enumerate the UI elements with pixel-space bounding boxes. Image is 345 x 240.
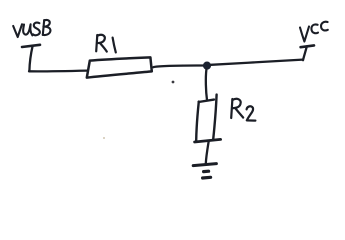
wire R1 to node [153, 66, 203, 68]
wire node to Vcc [211, 60, 303, 65]
net label Vcc [300, 22, 328, 42]
ground [193, 164, 216, 166]
net label VUSB [13, 20, 50, 37]
label R1 [96, 35, 116, 53]
pen dot speckle [172, 81, 175, 84]
wire R2 to ground [206, 142, 209, 164]
label R2 [231, 99, 255, 121]
node junction [203, 62, 211, 70]
terminal Vcc [301, 45, 314, 47]
wire node to R2 [206, 69, 207, 100]
terminal VUSB [22, 45, 40, 47]
wire VUSB to R1 [29, 69, 87, 72]
resistor R2 [199, 100, 214, 102]
resistor R1 [87, 57, 152, 77]
